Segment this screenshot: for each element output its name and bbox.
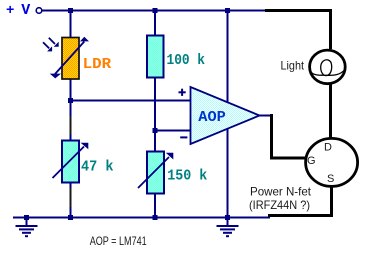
svg-text:LDR: LDR	[83, 56, 112, 73]
svg-text:100 k: 100 k	[167, 52, 206, 69]
svg-text:Light: Light	[281, 58, 305, 72]
svg-text:AOP: AOP	[198, 109, 226, 126]
svg-text:(IRFZ44N ?): (IRFZ44N ?)	[249, 198, 310, 212]
svg-text:47 k: 47 k	[81, 158, 114, 175]
svg-text:S: S	[327, 173, 334, 185]
svg-text:150 k: 150 k	[167, 168, 207, 185]
svg-text:V: V	[21, 2, 30, 19]
svg-text:+: +	[6, 3, 14, 19]
svg-text:Power N-fet: Power N-fet	[250, 185, 312, 199]
svg-text:D: D	[324, 142, 332, 154]
svg-text:G: G	[307, 155, 316, 167]
svg-text:AOP = LM741: AOP = LM741	[90, 234, 147, 248]
